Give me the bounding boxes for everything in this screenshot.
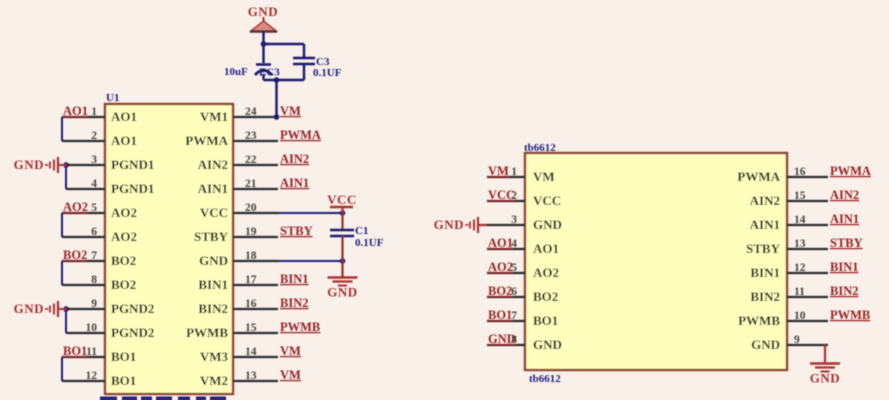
svg-text:2: 2 — [91, 130, 97, 142]
svg-text:BIN2: BIN2 — [750, 289, 780, 304]
svg-text:GND: GND — [751, 337, 780, 352]
svg-text:VM: VM — [280, 344, 301, 358]
svg-text:12: 12 — [86, 370, 98, 382]
svg-text:BO1: BO1 — [533, 313, 558, 328]
svg-text:VM: VM — [280, 368, 301, 382]
svg-text:VM: VM — [280, 104, 301, 118]
svg-text:4: 4 — [91, 178, 97, 190]
svg-text:AO1: AO1 — [488, 236, 513, 250]
svg-text:AIN2: AIN2 — [750, 193, 780, 208]
svg-text:VM1: VM1 — [200, 109, 228, 124]
svg-text:BO1: BO1 — [488, 308, 512, 322]
svg-text:AO2: AO2 — [533, 265, 559, 280]
svg-text:GND: GND — [248, 4, 278, 19]
svg-text:VCC: VCC — [327, 192, 357, 207]
svg-text:GND: GND — [199, 253, 228, 268]
svg-text:AO1: AO1 — [111, 133, 137, 148]
svg-text:8: 8 — [91, 274, 97, 286]
svg-text:BIN1: BIN1 — [830, 260, 858, 274]
svg-text:PWMB: PWMB — [280, 320, 320, 334]
svg-text:PWMB: PWMB — [830, 308, 870, 322]
svg-text:12: 12 — [794, 262, 806, 274]
svg-text:6: 6 — [91, 226, 97, 238]
svg-text:AIN2: AIN2 — [280, 152, 309, 166]
svg-text:tb6612: tb6612 — [529, 373, 561, 385]
svg-text:11: 11 — [794, 286, 805, 298]
svg-text:STBY: STBY — [280, 224, 313, 238]
svg-text:9: 9 — [794, 334, 800, 346]
svg-text:10: 10 — [794, 310, 806, 322]
svg-text:22: 22 — [245, 154, 257, 166]
svg-text:BO1: BO1 — [63, 344, 87, 358]
svg-text:13: 13 — [245, 370, 257, 382]
svg-text:STBY: STBY — [194, 229, 229, 244]
svg-text:STBY: STBY — [746, 241, 781, 256]
svg-text:VM3: VM3 — [200, 349, 229, 364]
svg-text:10uF: 10uF — [224, 66, 248, 78]
svg-text:20: 20 — [245, 202, 257, 214]
svg-text:2: 2 — [511, 190, 517, 202]
svg-text:GND: GND — [14, 157, 44, 172]
svg-text:24: 24 — [245, 106, 257, 118]
svg-text:3: 3 — [511, 214, 517, 226]
svg-text:8: 8 — [511, 334, 517, 346]
svg-text:PWMB: PWMB — [186, 325, 228, 340]
svg-text:PWMA: PWMA — [737, 169, 780, 184]
svg-text:GND: GND — [810, 371, 840, 386]
svg-text:AO2: AO2 — [488, 260, 513, 274]
svg-text:AO2: AO2 — [111, 229, 137, 244]
svg-text:GND: GND — [14, 301, 44, 316]
svg-text:AIN2: AIN2 — [198, 157, 228, 172]
svg-text:BO1: BO1 — [111, 373, 136, 388]
svg-text:15: 15 — [794, 190, 806, 202]
svg-text:10: 10 — [86, 322, 98, 334]
svg-text:21: 21 — [245, 178, 257, 190]
svg-text:VM: VM — [488, 164, 509, 178]
svg-text:7: 7 — [91, 250, 97, 262]
svg-text:GND: GND — [533, 217, 562, 232]
svg-text:18: 18 — [245, 250, 257, 262]
svg-text:0.1UF: 0.1UF — [313, 67, 342, 79]
svg-text:BO2: BO2 — [488, 284, 512, 298]
svg-text:VM2: VM2 — [200, 373, 228, 388]
svg-text:PGND2: PGND2 — [111, 301, 154, 316]
svg-text:BO1: BO1 — [111, 349, 136, 364]
svg-text:AO1: AO1 — [63, 104, 88, 118]
svg-text:AO1: AO1 — [111, 109, 137, 124]
svg-text:PWMA: PWMA — [185, 133, 228, 148]
svg-text:PWMA: PWMA — [830, 164, 871, 178]
svg-text:5: 5 — [91, 202, 97, 214]
svg-text:BO2: BO2 — [63, 248, 87, 262]
svg-text:PWMB: PWMB — [738, 313, 780, 328]
svg-text:7: 7 — [511, 310, 517, 322]
svg-text:BIN1: BIN1 — [280, 272, 308, 286]
svg-text:U1: U1 — [106, 92, 119, 104]
svg-text:GND: GND — [434, 217, 464, 232]
svg-text:PGND2: PGND2 — [111, 325, 154, 340]
svg-text:BIN1: BIN1 — [198, 277, 228, 292]
svg-text:BO2: BO2 — [111, 277, 136, 292]
svg-text:16: 16 — [245, 298, 257, 310]
svg-text:17: 17 — [245, 274, 257, 286]
svg-text:BIN2: BIN2 — [280, 296, 308, 310]
svg-text:AIN2: AIN2 — [830, 188, 859, 202]
svg-text:AO2: AO2 — [111, 205, 137, 220]
svg-text:5: 5 — [511, 262, 517, 274]
svg-text:AO1: AO1 — [533, 241, 559, 256]
svg-text:3: 3 — [91, 154, 97, 166]
svg-text:13: 13 — [794, 238, 806, 250]
svg-text:4: 4 — [511, 238, 517, 250]
svg-text:PGND1: PGND1 — [111, 181, 154, 196]
svg-text:1: 1 — [91, 106, 97, 118]
svg-text:16: 16 — [794, 166, 806, 178]
svg-text:0.1UF: 0.1UF — [355, 237, 384, 249]
svg-text:VCC: VCC — [200, 205, 228, 220]
svg-text:PWMA: PWMA — [280, 128, 321, 142]
svg-text:BO2: BO2 — [533, 289, 558, 304]
svg-text:14: 14 — [245, 346, 257, 358]
svg-text:AIN1: AIN1 — [830, 212, 859, 226]
svg-text:1: 1 — [511, 166, 517, 178]
svg-text:9: 9 — [91, 298, 97, 310]
svg-text:AIN1: AIN1 — [750, 217, 780, 232]
svg-text:VCC: VCC — [533, 193, 561, 208]
svg-text:14: 14 — [794, 214, 806, 226]
svg-text:AIN1: AIN1 — [280, 176, 309, 190]
svg-text:VM: VM — [533, 169, 555, 184]
svg-text:11: 11 — [86, 346, 97, 358]
svg-text:EC3: EC3 — [259, 67, 280, 79]
svg-text:GND: GND — [533, 337, 562, 352]
svg-text:AO2: AO2 — [63, 200, 88, 214]
svg-text:GND: GND — [327, 285, 357, 300]
svg-text:STBY: STBY — [830, 236, 863, 250]
svg-text:PGND1: PGND1 — [111, 157, 154, 172]
svg-text:BIN2: BIN2 — [830, 284, 858, 298]
svg-text:BO2: BO2 — [111, 253, 136, 268]
svg-text:AIN1: AIN1 — [198, 181, 228, 196]
svg-text:C1: C1 — [355, 225, 368, 237]
svg-text:15: 15 — [245, 322, 257, 334]
svg-text:23: 23 — [245, 130, 257, 142]
svg-text:6: 6 — [511, 286, 517, 298]
svg-text:19: 19 — [245, 226, 257, 238]
svg-text:tb6612: tb6612 — [524, 142, 556, 154]
svg-text:BIN1: BIN1 — [750, 265, 780, 280]
svg-text:BIN2: BIN2 — [198, 301, 228, 316]
